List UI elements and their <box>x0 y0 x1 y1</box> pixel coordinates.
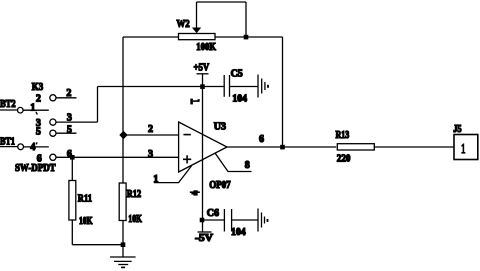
power -5V stub <box>202 220 204 232</box>
pin 4 label (rotated) <box>190 190 200 195</box>
wire R13 to J5 <box>374 146 454 148</box>
svg-text:8: 8 <box>245 160 250 171</box>
resistor R11 body <box>69 181 76 221</box>
svg-text:104: 104 <box>232 94 247 105</box>
wire left vertical from pot down to node A <box>122 37 124 135</box>
svg-text:220: 220 <box>337 154 351 165</box>
node junction ground <box>121 242 126 247</box>
resistor R12 body <box>119 183 126 221</box>
svg-text:OP07: OP07 <box>209 180 230 191</box>
arm 4 tick <box>36 142 37 144</box>
wire W2 wiper riser <box>196 2 198 28</box>
wire +5V rail horizontal <box>98 86 225 88</box>
pin 8 stub <box>215 153 252 172</box>
wire ground stub <box>122 245 124 257</box>
wire vertical from +5V rail down to switch pin3 wire <box>97 87 99 123</box>
wire R12 top from node A <box>122 135 124 183</box>
switch throw pin6 circle <box>50 154 56 160</box>
wire R11 bottom <box>71 220 73 245</box>
wire BT2 lead <box>0 109 17 111</box>
svg-text:3: 3 <box>148 149 153 160</box>
svg-text:1: 1 <box>461 142 466 157</box>
switch arm pole 2 <box>24 146 49 148</box>
node junction +5V rail <box>200 84 205 89</box>
wire R11 top <box>71 157 73 180</box>
svg-text:5: 5 <box>36 126 41 137</box>
switch throw pin3 circle <box>50 119 56 125</box>
arm 1 tick <box>36 112 38 115</box>
capacitor C6 plates <box>223 209 225 232</box>
wire op-amp supply vertical line <box>202 87 204 221</box>
pin 1 stub <box>154 166 192 183</box>
node junction on pot right wire <box>244 35 249 40</box>
wire feedback right vertical down to pot right wire <box>245 2 247 37</box>
wire pin5 stub <box>56 132 76 134</box>
svg-text:3: 3 <box>67 112 72 123</box>
wire R12 bottom <box>122 221 124 245</box>
svg-text:BT2: BT2 <box>0 99 16 110</box>
svg-text:1: 1 <box>30 103 35 114</box>
svg-text:+5V: +5V <box>194 63 210 74</box>
connector J5 box <box>454 135 478 160</box>
svg-text:K3: K3 <box>32 82 43 93</box>
svg-text:100K: 100K <box>196 42 216 53</box>
svg-text:W2: W2 <box>177 19 190 30</box>
wire C5 to ground <box>230 86 259 88</box>
switch throw pin5 circle <box>50 130 56 136</box>
wire op-amp pin3 input from switch pin6 <box>56 156 179 158</box>
svg-text:-5V: -5V <box>195 233 214 244</box>
op-amp plus input symbol <box>183 155 191 163</box>
node junction pin6 wire / R11 <box>70 155 75 160</box>
wire pot right terminal <box>215 36 283 38</box>
wire pin3 to +5V rail riser <box>56 121 97 123</box>
svg-text:4: 4 <box>30 142 35 153</box>
wire +5V stub down <box>202 74 204 87</box>
node junction pin2/W2/R12 (diamond) <box>119 131 127 139</box>
switch throw pin2 circle <box>50 95 56 101</box>
switch BT2 common terminal circle <box>18 107 24 113</box>
ground (right-facing) at C6 <box>257 209 259 232</box>
resistor R13 body <box>337 144 374 150</box>
op-amp minus input symbol <box>183 134 190 136</box>
svg-text:C6: C6 <box>207 208 219 219</box>
power -5V bar <box>198 231 212 233</box>
switch arm pole 1 <box>23 109 49 111</box>
power +5V bar <box>197 73 209 75</box>
svg-text:2: 2 <box>66 88 71 99</box>
svg-text:5: 5 <box>67 124 72 135</box>
svg-text:R13: R13 <box>336 130 350 141</box>
svg-text:2: 2 <box>36 93 41 104</box>
switch BT1 common terminal circle <box>18 144 24 150</box>
wire op-amp pin2 input <box>123 134 179 136</box>
svg-text:SW-DPDT: SW-DPDT <box>15 163 56 174</box>
svg-text:10K: 10K <box>128 214 142 225</box>
wire pot left terminal <box>123 36 179 38</box>
svg-text:6: 6 <box>259 134 264 145</box>
op-amp U3 triangle <box>179 122 227 172</box>
svg-text:R12: R12 <box>127 189 141 200</box>
svg-text:R11: R11 <box>78 194 92 205</box>
ground (right-facing) at C5 <box>257 75 259 98</box>
ground (bottom) <box>110 256 136 258</box>
potentiometer W2 wiper arrow <box>192 28 201 34</box>
pin 7 label (rotated) <box>190 99 200 105</box>
svg-text:10K: 10K <box>79 216 93 227</box>
svg-text:J5: J5 <box>453 124 461 135</box>
svg-text:C5: C5 <box>231 69 243 80</box>
svg-text:U3: U3 <box>214 121 226 132</box>
wire bottom horizontal to ground node <box>72 244 123 246</box>
capacitor C5 plates <box>223 75 225 97</box>
wire output pin6 <box>227 146 336 148</box>
wire pin2 stub <box>56 97 76 99</box>
svg-text:104: 104 <box>231 227 246 238</box>
svg-text:2: 2 <box>148 124 153 135</box>
wire C6 to ground <box>232 219 258 221</box>
wire W2 wiper feedback top horizontal <box>197 1 247 3</box>
svg-text:1: 1 <box>153 174 158 185</box>
wire feedback vertical to output <box>282 37 284 147</box>
node junction feedback/output <box>280 145 285 150</box>
wire supply to C6 <box>203 219 225 221</box>
capacitor C6 junction node <box>200 218 205 223</box>
wire BT1 lead <box>0 146 18 148</box>
potentiometer W2 body <box>179 34 216 40</box>
